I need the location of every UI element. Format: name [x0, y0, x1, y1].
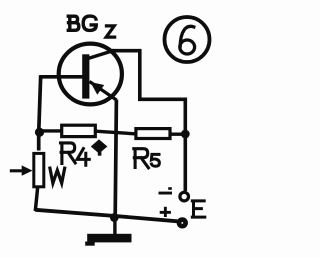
junction node at bottom rail [110, 213, 119, 222]
terminal plus (bottom circle) [179, 220, 186, 227]
label R4 [61, 143, 90, 165]
wire center vertical (emitter down to bottom rail) [115, 100, 116, 217]
junction node at base/R4/W [35, 128, 44, 137]
label minus sign [159, 187, 173, 194]
wire R5 right lead [170, 132, 185, 135]
wire row R4 to R5 [96, 131, 137, 134]
wire bottom rail [35, 210, 177, 222]
wire left vertical (base to junction to W) [39, 75, 41, 150]
wire row R4 left lead [37, 129, 61, 132]
ground [85, 216, 131, 246]
resistor R4 [62, 125, 96, 136]
resistor R5 [136, 129, 170, 139]
diamond mark after R4 [91, 139, 108, 155]
junction node at R5 right [181, 130, 190, 139]
potentiometer W [10, 153, 44, 186]
label plus sign [160, 207, 171, 217]
label E [192, 201, 205, 217]
transistor BG2 [59, 44, 122, 105]
wire W bottom lead [35, 188, 37, 211]
label R5 [134, 149, 160, 168]
label W [50, 167, 65, 184]
label BG2 [68, 16, 114, 37]
wire base lead [40, 75, 84, 79]
figure number 6 [165, 17, 210, 62]
terminal minus (top, open circle) [180, 192, 189, 201]
wire collector path (top, right side down to minus terminal) [112, 51, 185, 191]
